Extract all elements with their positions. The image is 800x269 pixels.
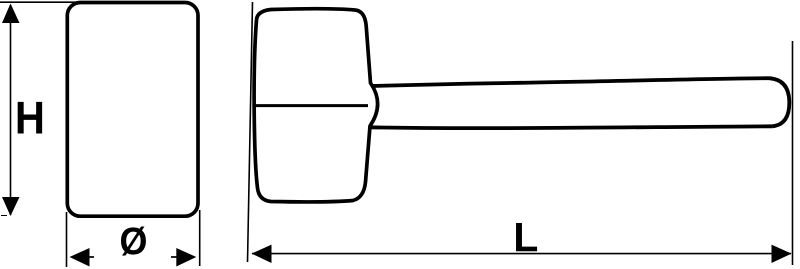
handle bottom edge: [370, 126, 773, 128]
dimension line stub left (diameter): [88, 256, 94, 258]
label H: [18, 102, 42, 134]
dimension line stub right (diameter): [171, 256, 178, 258]
handle top edge: [372, 78, 770, 86]
arrowhead L left: [252, 245, 272, 263]
extension line right (L dimension): [792, 41, 794, 265]
arrowhead L right: [772, 245, 792, 263]
extension line top (H dimension): [0, 1, 78, 3]
extension line left (L dimension): [248, 2, 253, 262]
arrowhead diameter right: [176, 248, 196, 267]
arrowhead H top: [2, 4, 20, 24]
dimension line H: [10, 5, 12, 215]
arrowhead H bottom: [2, 197, 20, 216]
mallet head side view outline: [254, 9, 378, 202]
extension line left (diameter dimension): [66, 212, 68, 267]
arrowhead diameter left: [70, 248, 90, 267]
label L: [516, 223, 537, 251]
mallet head front view (rounded rectangle): [67, 3, 198, 217]
mallet head parting line (side view): [256, 104, 369, 107]
dimension line L: [252, 253, 791, 255]
extension line bottom (H dimension, faint): [1, 215, 7, 217]
label diameter: [121, 227, 146, 256]
extension line right (diameter dimension): [199, 210, 201, 266]
handle end cap: [769, 78, 789, 126]
